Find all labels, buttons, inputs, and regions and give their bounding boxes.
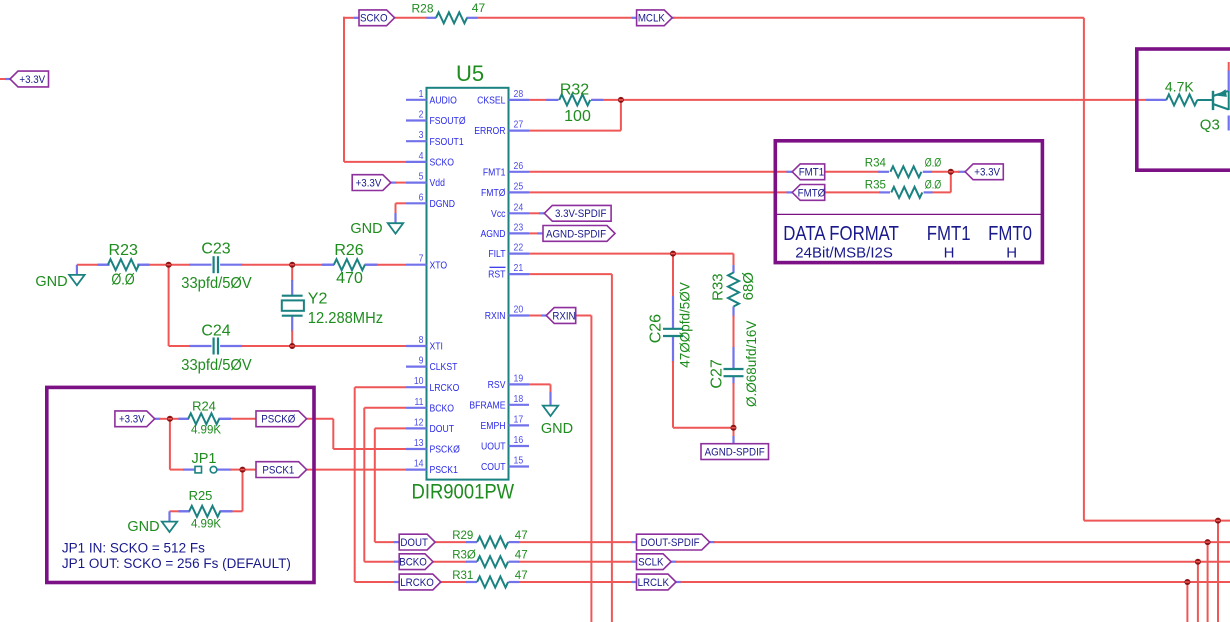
transistor Q3 — [1213, 70, 1229, 130]
wire PSCK1 label to pin14 — [307, 469, 406, 471]
svg-text:FMT0: FMT0 — [988, 221, 1032, 244]
svg-text:LRCKO: LRCKO — [400, 578, 434, 589]
svg-text:JP1 IN: SCKO = 512 Fs: JP1 IN: SCKO = 512 Fs — [62, 541, 205, 556]
wire R35 up to junction — [950, 172, 952, 193]
U5 pin 13 (PSCK0) — [406, 438, 460, 456]
resistor R23 — [98, 259, 150, 270]
junction MCLK right rail — [1215, 518, 1221, 524]
wire pin12 DOUT left — [375, 427, 406, 429]
svg-text:+3.3V: +3.3V — [974, 167, 1000, 178]
svg-text:23: 23 — [514, 222, 524, 233]
wire pin25 to FMT0 label — [529, 191, 788, 193]
svg-text:Ø.Ø: Ø.Ø — [111, 271, 134, 289]
wire R24 pin right — [219, 418, 231, 420]
annotation box JP1 — [47, 387, 314, 582]
svg-text:R3Ø: R3Ø — [452, 550, 476, 562]
wire R28 to MCLK label — [476, 17, 632, 19]
wire PSCK0 label to corner — [307, 418, 334, 420]
wire PSCK1 junction down to R25 — [242, 470, 244, 512]
global label LRCKO — [399, 574, 441, 590]
U5 pin 2 (FSOUT0) — [406, 109, 466, 127]
svg-text:FSOUTØ: FSOUTØ — [430, 115, 467, 127]
wire C27 to bottom rail — [733, 383, 735, 428]
wire FMT1 label to R34 — [825, 171, 880, 173]
svg-text:LRCKO: LRCKO — [430, 382, 460, 394]
wire RSV down to GND — [550, 384, 552, 393]
global label PSCK0 — [256, 411, 307, 427]
wire stub at FMT1 label — [787, 171, 793, 173]
resistor R28 — [426, 12, 477, 23]
svg-text:RSV: RSV — [488, 379, 506, 391]
svg-text:BFRAME: BFRAME — [469, 400, 505, 412]
svg-text:R24: R24 — [192, 399, 216, 414]
svg-text:DOUT: DOUT — [430, 423, 455, 435]
wire JP1 left — [170, 469, 184, 471]
wire stub at LRCKO label — [394, 581, 400, 583]
wire stub at LRCLK label right — [676, 581, 682, 583]
junction LRCLK right rail — [1184, 579, 1190, 585]
wire stub at AGND-SPDIF label — [538, 232, 544, 234]
wire R25 right corner — [232, 510, 243, 512]
svg-text:R26: R26 — [334, 242, 363, 259]
U5 pin 17 (EMPH) — [480, 414, 529, 432]
svg-text:+3.3V: +3.3V — [19, 75, 45, 86]
wire LRCKO label to R31 — [441, 581, 467, 583]
svg-text:18: 18 — [514, 393, 524, 404]
svg-text:17: 17 — [514, 414, 524, 425]
svg-text:3: 3 — [419, 130, 424, 141]
svg-text:26: 26 — [514, 160, 524, 171]
wire LRCLK branch down — [1186, 582, 1188, 622]
U5 pin 21 (RST) — [488, 263, 529, 281]
wire junction to Q3 box — [621, 99, 1147, 101]
U5 pin 27 (ERROR) — [474, 119, 529, 137]
wire stub at MCLK label right — [672, 17, 674, 19]
wire C26 branch down — [672, 254, 674, 297]
wire R31 to LRCLK label — [518, 581, 632, 583]
svg-text:DOUT-SPDIF: DOUT-SPDIF — [641, 538, 700, 549]
svg-text:4.99K: 4.99K — [191, 519, 221, 531]
wire stub GND at R23 — [76, 265, 78, 275]
svg-text:JP1: JP1 — [192, 451, 217, 467]
svg-text:10: 10 — [414, 376, 424, 387]
wire pin6 DGND corner — [396, 202, 407, 204]
power label +3.3V (data format box) — [965, 164, 1003, 180]
svg-text:FILT: FILT — [488, 249, 505, 261]
global label LRCLK — [637, 574, 677, 590]
ground symbol GND (R23) — [35, 274, 84, 290]
annotation box DATA FORMAT — [775, 141, 1042, 263]
wire BCKO to label — [364, 561, 395, 563]
wire R26 pin left — [322, 264, 334, 266]
svg-text:2: 2 — [419, 109, 424, 120]
svg-text:AGND: AGND — [480, 228, 505, 240]
wire DOUT-SPDIF branch down — [1207, 542, 1209, 622]
svg-text:47: 47 — [515, 570, 528, 582]
resistor R25 — [179, 506, 233, 517]
svg-text:PSCK1: PSCK1 — [262, 465, 294, 476]
U5 pin 4 (SCKO) — [406, 150, 454, 168]
wire XTI row left — [169, 345, 191, 347]
svg-text:Vcc: Vcc — [491, 208, 506, 220]
svg-text:24: 24 — [514, 202, 524, 213]
resistor 4.7K (Q3 base) — [1166, 94, 1213, 105]
U5 pin 12 (DOUT) — [406, 417, 454, 435]
svg-text:SCKO: SCKO — [430, 157, 455, 169]
wire JP1 to junction — [231, 469, 243, 471]
global label RXIN — [546, 308, 576, 324]
svg-text:FMT1: FMT1 — [483, 167, 506, 179]
resistor R32 — [546, 94, 603, 105]
svg-text:RST: RST — [488, 269, 506, 281]
svg-text:GND: GND — [127, 519, 159, 535]
svg-text:27: 27 — [514, 119, 524, 130]
wire R26 pin right — [365, 264, 378, 266]
wire +3.3V junction down to JP1 — [169, 419, 171, 470]
resistor R31 — [466, 577, 519, 588]
junction FILT/C26 — [670, 251, 676, 257]
power label +3.3V (Vdd pin5) — [352, 175, 391, 191]
svg-text:RXIN: RXIN — [485, 310, 506, 322]
wire C24 pin right — [220, 345, 242, 347]
svg-text:XTI: XTI — [430, 341, 443, 353]
svg-text:DGND: DGND — [430, 198, 456, 210]
wire +3.3V label to pin5 — [396, 182, 407, 184]
wire junction down to pin27 — [620, 100, 622, 131]
svg-text:FMTØ: FMTØ — [798, 188, 826, 199]
wire DOUT-SPDIF to far right — [714, 541, 1230, 543]
svg-text:DATA FORMAT: DATA FORMAT — [783, 221, 899, 244]
svg-text:BCKO: BCKO — [430, 403, 455, 415]
svg-text:21: 21 — [514, 263, 524, 274]
svg-text:9: 9 — [419, 355, 424, 366]
svg-text:C27: C27 — [708, 359, 725, 388]
svg-text:470: 470 — [336, 270, 363, 287]
svg-text:4.99K: 4.99K — [191, 425, 221, 437]
svg-text:3.3V-SPDIF: 3.3V-SPDIF — [555, 209, 606, 220]
svg-text:R33: R33 — [710, 273, 727, 301]
svg-text:33pfd/5ØV: 33pfd/5ØV — [181, 275, 252, 292]
resistor R35 — [879, 187, 932, 198]
wire R26 to pin7 — [377, 264, 406, 266]
svg-text:13: 13 — [414, 438, 424, 449]
svg-text:R23: R23 — [109, 242, 138, 259]
wire GND corner to R23 — [77, 264, 99, 266]
wire pin26 to FMT1 label — [529, 171, 788, 173]
svg-text:Ø.Ø68ufd/16V: Ø.Ø68ufd/16V — [744, 321, 759, 407]
junction SCLK right rail — [1195, 559, 1201, 565]
wire BCKO vertical — [363, 408, 365, 562]
svg-text:SCLK: SCLK — [638, 557, 664, 568]
junction +3.3V/R24 — [167, 416, 173, 422]
svg-text:PSCKØ: PSCKØ — [261, 414, 295, 425]
wire bottom rail C26-C27 — [673, 427, 734, 429]
wire pin27 ERROR — [529, 130, 621, 132]
svg-text:FMTØ: FMTØ — [481, 187, 506, 199]
U5 pin 8 (XTI) — [406, 335, 443, 353]
wire at Q3 collector top — [1228, 62, 1230, 71]
svg-text:GND: GND — [541, 421, 573, 437]
svg-text:R25: R25 — [189, 488, 213, 503]
wire R33 to C27 — [733, 316, 735, 349]
wire JP1 pin left — [183, 469, 195, 471]
U5 pin 20 (RXIN) — [485, 304, 529, 322]
wire R25 to GND corner — [170, 510, 180, 512]
svg-text:U5: U5 — [456, 61, 484, 86]
junction XTO/Y2 top — [289, 262, 295, 268]
U5 pin 11 (BCKO) — [406, 396, 454, 414]
wire at left edge +3.3V — [0, 78, 6, 80]
svg-text:LRCLK: LRCLK — [638, 578, 670, 589]
global label BCKO — [399, 554, 433, 570]
wire junction to +3.3V stub — [951, 171, 959, 173]
wire stub at SCLK label left — [632, 561, 638, 563]
svg-text:16: 16 — [514, 435, 524, 446]
svg-text:FMT1: FMT1 — [927, 221, 971, 244]
wire XTI row to pin8 — [292, 345, 406, 347]
junction C27/AGND rail — [731, 425, 737, 431]
wire C26 to bottom rail — [672, 361, 674, 428]
wire pin24 to 3.3V-SPDIF label — [529, 212, 540, 214]
wire pin19 RSV — [529, 383, 551, 385]
svg-text:AUDIO: AUDIO — [430, 95, 457, 107]
svg-text:PSCK1: PSCK1 — [430, 465, 458, 477]
svg-text:4: 4 — [419, 150, 424, 161]
svg-text:25: 25 — [514, 181, 524, 192]
wire stub at +3.3V label (Vdd) — [391, 182, 397, 184]
U5 pin 9 (CLKST) — [406, 355, 458, 373]
svg-text:11: 11 — [414, 396, 423, 407]
svg-text:C26: C26 — [647, 314, 664, 343]
wire C26 pin top — [672, 296, 674, 329]
wire pin22 FILT — [529, 253, 734, 255]
svg-text:47: 47 — [515, 550, 528, 562]
svg-text:19: 19 — [514, 373, 524, 384]
wire junction to PSCK1 label — [243, 469, 257, 471]
global label AGND-SPDIF (pin23) — [543, 226, 615, 242]
wire DOUT to label — [375, 541, 395, 543]
junction CKSEL/R32 — [618, 97, 624, 103]
svg-text:R35: R35 — [865, 179, 886, 191]
svg-text:100: 100 — [564, 108, 591, 125]
wire stub GND at R25 — [168, 511, 170, 521]
svg-text:Vdd: Vdd — [430, 178, 445, 190]
wire stub at DOUT label — [394, 541, 400, 543]
global label DOUT-SPDIF — [637, 534, 710, 550]
wire pin10 LRCKO left — [355, 386, 406, 388]
svg-text:12.288MHz: 12.288MHz — [308, 309, 383, 326]
capacitor C23 — [213, 256, 215, 273]
wire SCKO net vertical — [343, 17, 345, 162]
junction R34/R35 — [948, 169, 954, 175]
wire C27 pin top — [732, 347, 734, 370]
wire +3.3V to junction — [159, 418, 170, 420]
global label DOUT — [399, 534, 435, 550]
wire Y2 pin bottom — [291, 316, 293, 332]
wire C24 to junction — [242, 345, 293, 347]
wire to AGND-SPDIF rect label — [733, 428, 735, 437]
wire C24 pin left — [189, 345, 211, 347]
ground symbol GND (R25) — [127, 519, 177, 535]
IC U5 DIR9001PW body — [427, 88, 509, 480]
wire C23 to junction2 — [242, 264, 293, 266]
global label FMT0 (box) — [792, 185, 825, 201]
svg-text:5: 5 — [419, 171, 424, 182]
wire pin21 RST — [529, 273, 612, 275]
svg-text:Q3: Q3 — [1200, 117, 1220, 134]
svg-text:GND: GND — [35, 274, 67, 290]
global label FMT1 (box) — [792, 164, 825, 180]
U5 pin 16 (UOUT) — [481, 435, 529, 453]
wire stub at +3.3V label (JP1 box) — [155, 418, 161, 420]
wire R33 pin bottom — [732, 307, 734, 317]
wire SCKO net to pin4 — [344, 161, 406, 163]
resistor R34 — [878, 166, 932, 177]
svg-text:14: 14 — [414, 458, 424, 469]
wire stub at LRCLK label left — [632, 581, 638, 583]
wire stub at SCLK label right — [671, 561, 676, 563]
svg-text:8: 8 — [419, 335, 424, 346]
wire junction to C23 — [169, 264, 191, 266]
U5 pin 24 (Vcc) — [491, 202, 529, 220]
wire stub at MCLK label left — [632, 17, 637, 19]
wire R23 pin left — [98, 264, 110, 266]
wire MCLK to right corner — [674, 17, 1084, 19]
wire SCLK branch down — [1197, 562, 1199, 622]
U5 pin 6 (DGND) — [406, 192, 455, 210]
power label +3.3V (left edge) — [10, 71, 49, 87]
resistor R33 — [728, 273, 739, 307]
svg-text:XTO: XTO — [430, 260, 448, 272]
wire MCLK horizontal bottom right — [1084, 520, 1230, 522]
svg-text:DIR9001PW: DIR9001PW — [411, 480, 514, 503]
svg-text:R32: R32 — [560, 82, 589, 99]
svg-text:24Bit/MSB/I2S: 24Bit/MSB/I2S — [795, 245, 893, 262]
svg-text:CLKST: CLKST — [430, 362, 458, 374]
divider line DATA FORMAT box — [775, 213, 1042, 215]
svg-text:Y2: Y2 — [308, 291, 328, 308]
wire SCKO label to R28 — [395, 17, 427, 19]
ground symbol GND (DGND pin6) — [350, 221, 403, 237]
wire FMT0 label to R35 — [825, 191, 881, 193]
wire R24 to PSCK0 label — [230, 418, 257, 420]
svg-text:68Ø: 68Ø — [740, 272, 757, 301]
svg-text:AGND-SPDIF: AGND-SPDIF — [546, 229, 606, 240]
wire DOUT vertical — [374, 428, 376, 542]
svg-text:FSOUT1: FSOUT1 — [430, 136, 464, 148]
wire LRCKO to label — [355, 581, 395, 583]
wire LRCKO vertical — [354, 387, 356, 582]
wire stub at Q3 base resistor — [1146, 99, 1167, 101]
svg-text:RXIN: RXIN — [552, 311, 575, 322]
svg-text:BCKO: BCKO — [399, 557, 427, 568]
svg-text:SCKO: SCKO — [360, 13, 388, 24]
svg-text:4.7K: 4.7K — [1165, 79, 1194, 95]
U5 pin 25 (FMT0) — [481, 181, 529, 199]
wire stub at DOUT-SPDIF label right — [710, 541, 715, 543]
wire RXIN vertical to bottom — [590, 316, 592, 622]
svg-text:R31: R31 — [452, 570, 473, 582]
U5 pin 7 (XTO) — [406, 253, 447, 271]
wire R24 pin left — [179, 418, 189, 420]
ground symbol GND (RSV pin19) — [541, 406, 573, 437]
global label SCLK — [637, 554, 672, 570]
svg-text:47: 47 — [472, 1, 486, 15]
svg-text:12: 12 — [414, 417, 424, 428]
U5 pin 22 (FILT) — [488, 242, 529, 260]
wire stub at RXIN label — [541, 314, 547, 316]
wire pin28 to R32 — [529, 99, 547, 101]
svg-text:DOUT: DOUT — [400, 538, 428, 549]
svg-text:COUT: COUT — [481, 461, 506, 473]
svg-text:UOUT: UOUT — [481, 441, 506, 453]
junction DOUT-SPDIF right rail — [1205, 539, 1211, 545]
svg-text:FMT1: FMT1 — [799, 167, 825, 178]
svg-text:Ø.Ø: Ø.Ø — [925, 158, 941, 170]
svg-text:MCLK: MCLK — [638, 13, 665, 24]
svg-text:R29: R29 — [452, 530, 473, 542]
svg-text:6: 6 — [419, 192, 424, 203]
capacitor C26 — [663, 328, 683, 330]
wire R25 pin left — [179, 510, 190, 512]
svg-text:H: H — [944, 245, 955, 262]
wire stub at +3.3V label (data format box) — [958, 171, 965, 173]
wire junction to R24 — [170, 418, 180, 420]
wire pin23 to AGND-SPDIF label — [529, 232, 539, 234]
svg-text:C23: C23 — [201, 241, 230, 258]
svg-text:ERROR: ERROR — [474, 126, 505, 138]
U5 pin 23 (AGND) — [480, 222, 529, 240]
svg-text:20: 20 — [514, 304, 524, 315]
wire R25 pin right — [220, 510, 232, 512]
wire SCKO corner to label — [343, 17, 354, 19]
wire JP1 pin right — [217, 469, 232, 471]
svg-text:28: 28 — [514, 88, 524, 99]
power label +3.3V (JP1 box) — [115, 411, 155, 427]
wire BCKO label to R30 — [433, 561, 467, 563]
svg-text:R34: R34 — [865, 158, 887, 170]
global label 3.3V-SPDIF — [544, 205, 611, 221]
wire stub at +3.3V label (left edge) — [5, 78, 11, 80]
wire RXIN label to corner — [576, 315, 592, 317]
wire stub at DOUT-SPDIF label left — [632, 541, 638, 543]
svg-text:+3.3V: +3.3V — [119, 414, 145, 425]
annotation box Q3 — [1137, 49, 1230, 170]
U5 pin 15 (COUT) — [481, 455, 529, 473]
junction XTO left — [166, 262, 172, 268]
svg-text:R28: R28 — [412, 2, 434, 16]
U5 pin 3 (FSOUT1) — [406, 130, 464, 148]
U5 pin 18 (BFRAME) — [469, 393, 529, 411]
wire stub GND at DGND — [394, 213, 396, 223]
svg-text:C24: C24 — [201, 322, 230, 339]
U5 pin 19 (RSV) — [488, 373, 529, 391]
svg-text:H: H — [1006, 245, 1017, 262]
wire R33 pin top — [732, 265, 734, 273]
junction XTI/Y2 bottom — [289, 343, 295, 349]
wire stub at AGND-SPDIF rect label — [732, 436, 734, 444]
svg-text:AGND-SPDIF: AGND-SPDIF — [705, 447, 765, 458]
wire C26 pin bottom — [672, 336, 674, 363]
global label MCLK — [637, 10, 673, 26]
svg-text:Ø.Ø: Ø.Ø — [925, 179, 941, 191]
wire Y2 pin top — [291, 280, 293, 295]
wire PSCK0 vertical — [332, 419, 334, 449]
wire R33 branch down — [733, 254, 735, 266]
wire R29 to DOUT-SPDIF label — [518, 541, 632, 543]
crystal Y2 — [282, 296, 304, 316]
svg-text:22: 22 — [514, 242, 524, 253]
